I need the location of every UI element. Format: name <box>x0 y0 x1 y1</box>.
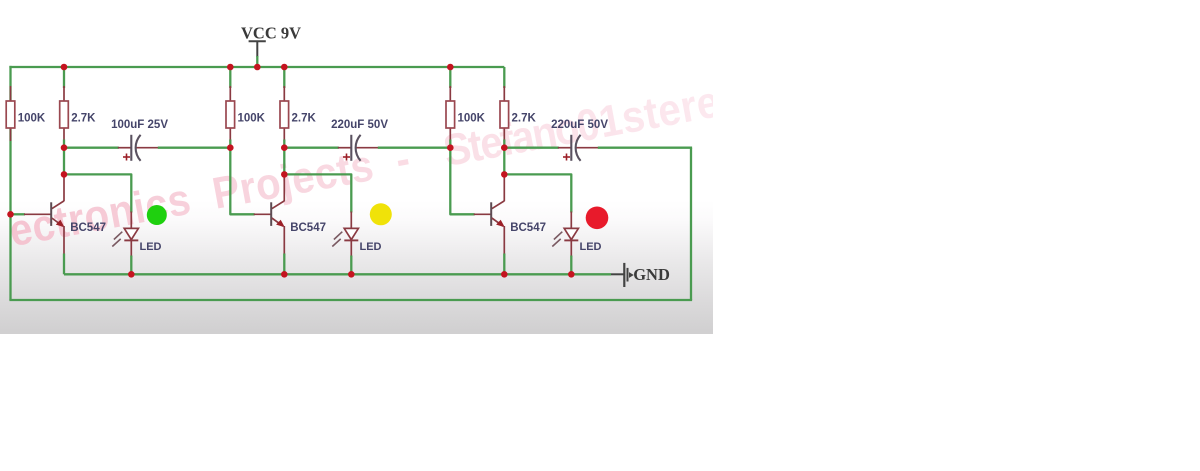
wire stub below 100K resistor (stage 3) <box>449 127 451 141</box>
wire stub below 2.7K (stage 2) <box>283 127 285 141</box>
transistor Q1 base bar <box>50 202 52 226</box>
LED D1 triangle <box>124 228 138 239</box>
junction on coupling line x=450.3 <box>447 144 454 151</box>
svg-text:LED: LED <box>140 241 162 253</box>
wire maroon base stub into Q3 <box>474 213 492 215</box>
ground symbol GND <box>611 273 624 275</box>
wire 2.7K bottom to collector node (stage 2) <box>283 140 285 175</box>
junction on ground bus x=351.3 <box>348 271 355 278</box>
wire collector node to LED D1 anode <box>64 174 131 212</box>
wire collector node to capacitor C3 <box>504 147 559 149</box>
svg-text:BC547: BC547 <box>290 222 326 234</box>
junction collector node x=504.3 <box>501 171 508 178</box>
transistor Q2 collector diagonal <box>272 201 285 209</box>
wire VCC stub <box>256 56 258 67</box>
junction on VCC bus x=64.0 <box>61 64 68 71</box>
junction on ground bus x=504.3 <box>501 271 508 278</box>
wire 100K bottom to coupling node (stage 2) <box>229 140 231 148</box>
svg-text:VCC 9V: VCC 9V <box>241 24 301 43</box>
junction on VCC bus x=284.3 <box>281 64 288 71</box>
transistor Q1 BC547 collector stub <box>63 174 65 201</box>
wire 2.7K bottom to collector node (stage 3) <box>503 140 505 175</box>
wire stub into 2.7K top (stage 1) <box>63 86 65 102</box>
LED D3 triangle <box>564 228 578 239</box>
wire top VCC bus <box>9 66 504 68</box>
wire base feed from left rail to Q1 base <box>11 213 26 215</box>
svg-text:LED: LED <box>580 241 602 253</box>
watermark text <box>6 76 748 255</box>
power symbol VCC <box>249 40 266 42</box>
junction collector node x=284.3 <box>281 171 288 178</box>
junction on coupling line x=230.3 <box>227 144 234 151</box>
wire right feedback rail <box>690 148 692 300</box>
transistor Q3 emitter arrowhead <box>496 220 505 228</box>
junction on coupling line x=284.3 <box>281 144 288 151</box>
transistor Q3 base bar <box>490 202 492 226</box>
LED D3 cathode bar <box>564 239 578 241</box>
wire collector node to LED D2 anode <box>284 174 351 212</box>
LED D2 triangle <box>344 228 358 239</box>
capacitor C2 220uF 50V polarized <box>350 135 352 161</box>
wire stub below 100K resistor (stage 1) <box>10 127 12 141</box>
transistor Q1 emitter diagonal <box>52 218 63 226</box>
wire emitter Q1 down <box>63 226 65 255</box>
wire stub into 100K resistor top (stage 2) <box>229 86 231 102</box>
junction on ground bus x=131.3 <box>128 271 135 278</box>
wire collector node to LED D3 anode <box>504 174 571 212</box>
wire VCC bus to R3c 2.7K <box>503 67 505 88</box>
transistor Q2 base bar <box>270 202 272 226</box>
svg-text:100uF 25V: 100uF 25V <box>111 119 168 131</box>
wire base feed down and to Q2 base <box>230 148 254 215</box>
transistor Q2 BC547 collector stub <box>283 174 285 201</box>
capacitor C3 plus sign <box>563 156 570 158</box>
wire outer bottom loop <box>9 299 692 301</box>
junction on VCC bus x=450.3 <box>447 64 454 71</box>
junction collector node x=64.0 <box>61 171 68 178</box>
svg-text:2.7K: 2.7K <box>292 113 317 125</box>
wire stub into 100K resistor top (stage 1) <box>10 86 12 102</box>
transistor Q3 BC547 collector stub <box>503 174 505 201</box>
svg-text:LED: LED <box>360 241 382 253</box>
wire stub below 100K resistor (stage 2) <box>229 127 231 141</box>
wire VCC bus to R3b 100K <box>449 67 451 88</box>
junction on coupling line x=64.0 <box>61 144 68 151</box>
wire bottom ground bus <box>64 273 611 275</box>
capacitor C3 220uF 50V polarized <box>570 135 572 161</box>
wire stub into 2.7K top (stage 2) <box>283 86 285 102</box>
LED D1 cathode bar <box>124 239 138 241</box>
wire collector node to capacitor C1 <box>64 147 119 149</box>
resistor R2c 2.7K body <box>280 101 289 128</box>
wire emitter Q3 down <box>503 226 505 255</box>
capacitor C1 100uF 25V polarized <box>130 135 132 161</box>
transistor Q3 emitter diagonal <box>492 218 503 226</box>
transistor Q1 collector diagonal <box>52 201 64 209</box>
resistor R1b 100K body <box>6 101 15 128</box>
indicator red LED glow circle <box>586 207 609 230</box>
wire left rail (VCC to 100K R1 to Q1 base to bottom loop) <box>9 66 11 300</box>
indicator green LED glow circle <box>147 205 167 225</box>
wire capacitor C2 output <box>356 147 379 149</box>
svg-text:100K: 100K <box>458 113 486 125</box>
LED D1 light slashes <box>114 232 122 240</box>
resistor R1c 2.7K body <box>60 101 69 128</box>
svg-text:220uF 50V: 220uF 50V <box>331 119 388 131</box>
svg-text:100K: 100K <box>18 113 46 125</box>
LED D2 light slashes <box>334 232 342 240</box>
wire stub into 2.7K top (stage 3) <box>503 86 505 102</box>
wire VCC bus to R2b 100K <box>229 67 231 88</box>
capacitor C2 plus sign <box>343 156 350 158</box>
wire 2.7K bottom to collector node (stage 1) <box>63 140 65 175</box>
wire stub below 2.7K (stage 3) <box>503 127 505 141</box>
LED D2 cathode bar <box>344 239 358 241</box>
svg-text:100K: 100K <box>238 113 266 125</box>
wire capacitor C3 output <box>576 147 599 149</box>
resistor R3c 2.7K body <box>500 101 509 128</box>
transistor Q1 emitter arrowhead <box>56 220 65 228</box>
junction on VCC bus x=230.3 <box>227 64 234 71</box>
svg-text:2.7K: 2.7K <box>71 113 96 125</box>
resistor R2b 100K body <box>226 101 235 128</box>
wire stub below 2.7K (stage 1) <box>63 127 65 141</box>
transistor Q2 emitter diagonal <box>272 218 283 226</box>
wire LED D1 cathode down <box>130 240 132 256</box>
wire LED D2 cathode down <box>350 240 352 256</box>
junction on coupling line x=504.3 <box>501 144 508 151</box>
wire capacitor C1 output <box>136 147 159 149</box>
wire stub into 100K resistor top (stage 3) <box>449 86 451 102</box>
transistor Q3 collector diagonal <box>492 201 505 209</box>
svg-text:2.7K: 2.7K <box>512 113 537 125</box>
junction on ground bus x=571.3 <box>568 271 575 278</box>
resistor R3b 100K body <box>446 101 455 128</box>
svg-text:BC547: BC547 <box>70 222 106 234</box>
junction on VCC bus x=257.3 <box>254 64 261 71</box>
wire VCC bus to R1c 2.7K <box>63 67 65 88</box>
indicator yellow LED glow circle <box>370 203 392 225</box>
wire maroon base stub into Q1 <box>24 213 51 215</box>
capacitor C1 plus sign <box>123 156 130 158</box>
wire maroon base stub into Q2 <box>254 213 272 215</box>
svg-text:BC547: BC547 <box>510 222 546 234</box>
junction on ground bus x=284.3 <box>281 271 288 278</box>
junction Q1 base node <box>7 211 14 218</box>
wire VCC bus to R2c 2.7K <box>283 67 285 88</box>
LED D3 light slashes <box>554 232 562 240</box>
wire LED D3 cathode down <box>570 240 572 256</box>
wire 100K bottom to coupling node (stage 3) <box>449 140 451 148</box>
wire collector node to capacitor C2 <box>284 147 339 149</box>
wire base feed down and to Q3 base <box>450 148 474 215</box>
transistor Q2 emitter arrowhead <box>276 220 285 228</box>
svg-text:220uF 50V: 220uF 50V <box>551 119 608 131</box>
svg-text:GND: GND <box>633 265 670 284</box>
wire emitter Q2 down <box>283 226 285 255</box>
